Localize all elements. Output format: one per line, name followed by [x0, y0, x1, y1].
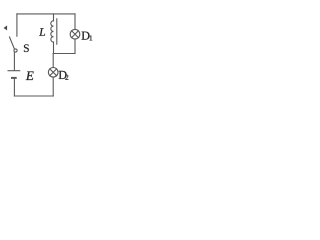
- battery E long plate: [8, 70, 21, 72]
- lamp D1 cross: [72, 31, 79, 38]
- label L: [39, 28, 45, 36]
- wire lamp D1 to mid: [74, 39, 76, 53]
- wire bottom horizontal: [14, 95, 53, 97]
- wire mid horizontal: [53, 53, 75, 55]
- lamp D2 circle: [48, 68, 58, 78]
- wire switch to battery: [13, 53, 15, 71]
- switch S contact circle: [14, 49, 17, 52]
- switch S lever: [10, 37, 15, 49]
- wire inductor to top: [53, 14, 55, 21]
- inductor L coil: [51, 21, 54, 42]
- battery E short plate: [11, 77, 17, 79]
- label D2 subscript 2: [65, 75, 68, 80]
- wire left upper (switch fixed terminal): [16, 14, 18, 36]
- wire bottom to lamp D2: [52, 77, 54, 96]
- lamp D1 circle: [70, 29, 80, 39]
- label E: [26, 71, 34, 80]
- label S: [24, 44, 29, 52]
- wire top to lamp D1: [74, 14, 76, 29]
- inductor iron core line: [56, 19, 58, 44]
- wire battery to bottom: [13, 79, 15, 96]
- label D1 subscript 1: [90, 35, 93, 40]
- label D1 letter D: [82, 32, 90, 40]
- label D2 letter D: [59, 71, 67, 79]
- wire lamp D2 to mid node: [52, 54, 54, 68]
- lamp D2 cross: [50, 69, 57, 76]
- wire mid node to inductor: [53, 42, 55, 54]
- switch direction arrow: [4, 25, 8, 30]
- wire top horizontal: [17, 13, 75, 15]
